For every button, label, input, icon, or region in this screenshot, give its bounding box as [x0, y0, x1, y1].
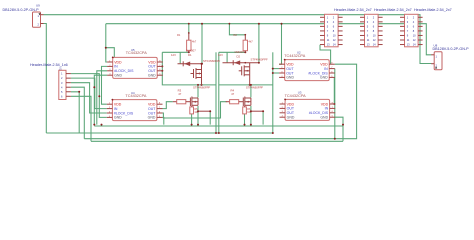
- svg-text:IN: IN: [114, 107, 118, 111]
- svg-text:STF4N60FPF: STF4N60FPF: [193, 86, 211, 90]
- svg-text:DB128V-5.0-2P-GN-P: DB128V-5.0-2P-GN-P: [3, 8, 40, 12]
- svg-text:OUT: OUT: [287, 107, 295, 111]
- svg-text:#LOCK_DIS: #LOCK_DIS: [308, 71, 328, 75]
- svg-text:GND: GND: [320, 76, 328, 80]
- svg-text:47: 47: [178, 92, 182, 96]
- svg-text:12V: 12V: [171, 53, 176, 57]
- svg-text:STF4N60FPF: STF4N60FPF: [246, 86, 264, 90]
- svg-text:Header-Male-2.54_2x7: Header-Male-2.54_2x7: [334, 8, 372, 12]
- svg-text:12V: 12V: [218, 53, 223, 57]
- svg-text:47: 47: [231, 92, 235, 96]
- svg-text:VDD: VDD: [287, 102, 295, 106]
- svg-text:VDD: VDD: [114, 103, 122, 107]
- svg-text:GND: GND: [148, 116, 156, 120]
- svg-text:U5: U5: [131, 48, 135, 52]
- svg-text:D1: D1: [188, 53, 192, 57]
- svg-text:U4: U4: [131, 91, 135, 95]
- svg-text:GND: GND: [114, 116, 122, 120]
- svg-text:GND: GND: [148, 74, 156, 78]
- svg-text:VDD: VDD: [148, 103, 156, 107]
- svg-text:R2: R2: [234, 33, 238, 37]
- svg-text:DB128V-5.0-2P-GN-P: DB128V-5.0-2P-GN-P: [433, 47, 470, 51]
- svg-text:GND: GND: [320, 116, 328, 120]
- svg-text:OUT: OUT: [148, 107, 156, 111]
- svg-text:VDD: VDD: [114, 60, 122, 64]
- svg-text:TC4432CPA: TC4432CPA: [125, 94, 147, 98]
- svg-text:IN: IN: [114, 65, 118, 69]
- svg-text:U2: U2: [297, 51, 301, 55]
- svg-text:VDD: VDD: [320, 63, 328, 67]
- svg-text:TC4432CPA: TC4432CPA: [126, 51, 148, 55]
- svg-text:4k7: 4k7: [192, 40, 197, 44]
- svg-text:VDD: VDD: [286, 63, 294, 67]
- svg-text:GND: GND: [114, 74, 122, 78]
- svg-text:4k7: 4k7: [249, 40, 254, 44]
- svg-text:OUT: OUT: [286, 71, 294, 75]
- svg-text:STF4N60FPF: STF4N60FPF: [251, 57, 269, 61]
- svg-text:Header-Male-2.54_1x6: Header-Male-2.54_1x6: [30, 63, 68, 67]
- svg-text:OUT: OUT: [286, 67, 294, 71]
- svg-text:Header-Male-2.54_2x7: Header-Male-2.54_2x7: [374, 8, 412, 12]
- svg-text:IN: IN: [324, 67, 328, 71]
- svg-text:D2: D2: [237, 55, 241, 59]
- svg-text:Header-Male-2.54_2x7: Header-Male-2.54_2x7: [414, 8, 452, 12]
- svg-text:GND: GND: [287, 116, 295, 120]
- svg-text:U3: U3: [298, 91, 302, 95]
- svg-text:VDD: VDD: [321, 102, 329, 106]
- svg-text:#LOCK_DIS: #LOCK_DIS: [114, 111, 134, 115]
- svg-text:#LOCK_DIS: #LOCK_DIS: [309, 111, 329, 115]
- svg-text:OUT: OUT: [148, 111, 156, 115]
- svg-text:R1: R1: [177, 33, 181, 37]
- svg-text:IN: IN: [325, 107, 329, 111]
- svg-text:OUT: OUT: [148, 65, 156, 69]
- svg-text:#LOCK_DIS: #LOCK_DIS: [114, 69, 134, 73]
- svg-text:STF4N60FPF: STF4N60FPF: [203, 59, 221, 63]
- svg-text:TC4432CPA: TC4432CPA: [284, 54, 306, 58]
- svg-text:VDD: VDD: [148, 60, 156, 64]
- svg-text:1N4007: 1N4007: [234, 50, 244, 54]
- svg-text:TC4432CPA: TC4432CPA: [285, 94, 307, 98]
- svg-text:GND: GND: [286, 76, 294, 80]
- svg-text:OUT: OUT: [148, 69, 156, 73]
- svg-text:OUT: OUT: [287, 111, 295, 115]
- svg-text:1N4007: 1N4007: [186, 48, 196, 52]
